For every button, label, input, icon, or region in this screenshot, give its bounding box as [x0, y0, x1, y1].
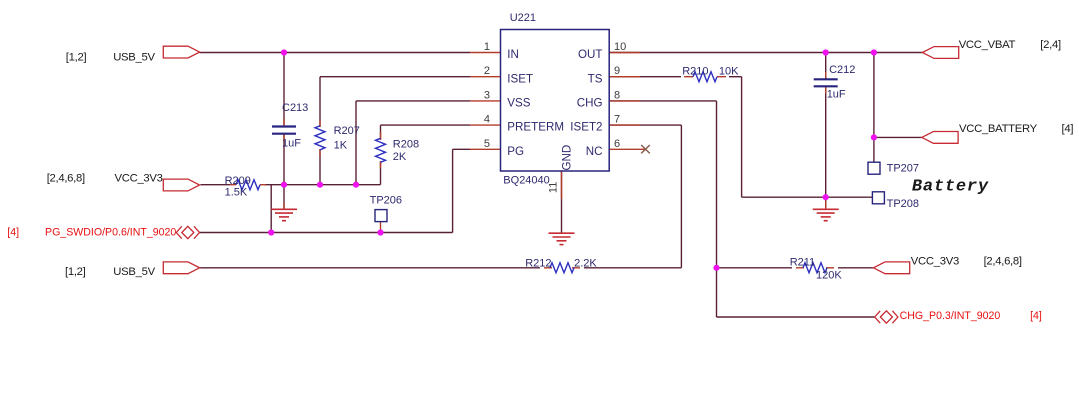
svg-text:4: 4	[484, 114, 490, 126]
svg-text:7: 7	[614, 114, 620, 126]
svg-text:1uF: 1uF	[282, 138, 301, 150]
svg-text:2K: 2K	[393, 151, 407, 163]
svg-text:[1,2]: [1,2]	[66, 52, 87, 64]
svg-text:C212: C212	[829, 64, 855, 76]
svg-text:USB_5V: USB_5V	[113, 52, 155, 64]
svg-text:[4]: [4]	[7, 227, 19, 239]
svg-text:TP206: TP206	[370, 194, 402, 206]
svg-text:R209: R209	[225, 175, 251, 187]
svg-text:2: 2	[484, 65, 490, 77]
svg-text:GND: GND	[561, 145, 574, 171]
svg-text:NC: NC	[586, 145, 603, 158]
svg-text:[2,4,6,8]: [2,4,6,8]	[984, 255, 1022, 267]
svg-text:TP208: TP208	[887, 198, 919, 210]
svg-text:VCC_BATTERY: VCC_BATTERY	[959, 123, 1038, 135]
svg-text:9: 9	[614, 65, 620, 77]
svg-text:[4]: [4]	[1062, 123, 1074, 135]
svg-text:PRETERM: PRETERM	[507, 121, 564, 134]
svg-text:10: 10	[614, 41, 626, 53]
svg-text:2.2K: 2.2K	[574, 257, 597, 269]
svg-text:R207: R207	[334, 125, 360, 137]
svg-text:R212: R212	[525, 257, 551, 269]
svg-text:VSS: VSS	[507, 97, 530, 110]
svg-text:5: 5	[484, 138, 490, 150]
svg-text:1: 1	[484, 41, 490, 53]
svg-text:BQ24040: BQ24040	[503, 175, 549, 187]
svg-text:[2,4,6,8]: [2,4,6,8]	[47, 173, 85, 185]
svg-text:OUT: OUT	[578, 48, 602, 61]
svg-text:120K: 120K	[816, 270, 842, 282]
svg-text:TS: TS	[588, 72, 603, 85]
svg-text:CHG: CHG	[577, 97, 603, 110]
svg-text:USB_5V: USB_5V	[113, 266, 155, 278]
svg-text:8: 8	[614, 89, 620, 101]
svg-text:[2,4]: [2,4]	[1040, 39, 1061, 51]
svg-text:3: 3	[484, 89, 490, 101]
svg-text:VCC_3V3: VCC_3V3	[911, 255, 959, 267]
svg-text:PG: PG	[507, 145, 524, 158]
svg-text:6: 6	[614, 138, 620, 150]
svg-text:R208: R208	[393, 139, 419, 151]
svg-text:C213: C213	[282, 102, 308, 114]
svg-text:10K: 10K	[719, 66, 739, 78]
svg-text:IN: IN	[507, 48, 519, 61]
svg-text:1uF: 1uF	[827, 88, 846, 100]
svg-text:R210: R210	[682, 66, 708, 78]
svg-text:TP207: TP207	[887, 163, 919, 175]
svg-text:ISET2: ISET2	[570, 121, 602, 134]
svg-text:R211: R211	[790, 256, 815, 268]
svg-text:1K: 1K	[334, 140, 348, 152]
svg-text:Battery: Battery	[912, 178, 989, 197]
svg-text:1.5K: 1.5K	[225, 186, 248, 198]
svg-text:CHG_P0.3/INT_9020: CHG_P0.3/INT_9020	[900, 310, 1001, 322]
svg-text:VCC_3V3: VCC_3V3	[115, 173, 163, 185]
svg-text:U221: U221	[510, 12, 536, 24]
svg-text:[1,2]: [1,2]	[65, 266, 86, 278]
svg-text:PG_SWDIO/P0.6/INT_9020: PG_SWDIO/P0.6/INT_9020	[45, 227, 176, 239]
svg-text:ISET: ISET	[507, 72, 533, 85]
svg-text:VCC_VBAT: VCC_VBAT	[959, 39, 1016, 51]
svg-text:11: 11	[548, 182, 560, 193]
svg-text:[4]: [4]	[1030, 310, 1042, 322]
